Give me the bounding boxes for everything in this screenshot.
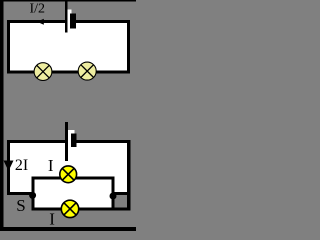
wire: circuit2 top left segment xyxy=(7,140,65,143)
wire: circuit1 top left segment xyxy=(7,20,65,23)
battery B1 thick plate xyxy=(70,14,76,29)
lamp L2 xyxy=(78,62,96,80)
wire: circuit2 bottom xyxy=(31,208,130,211)
wire: inner top branch xyxy=(31,177,114,180)
wire: left connector to node xyxy=(7,192,35,195)
svg-text:I: I xyxy=(49,210,55,229)
canvas background xyxy=(0,0,136,231)
svg-text:S: S xyxy=(16,196,25,215)
wire: inner left vertical xyxy=(31,177,34,211)
wire: circuit1 bottom xyxy=(7,70,130,73)
wire: circuit1 left xyxy=(7,20,10,73)
battery B1 thin plate xyxy=(65,2,68,33)
wire: inner right vertical xyxy=(111,177,114,211)
battery B2 thin plate / stub xyxy=(65,122,68,161)
frame border left xyxy=(0,0,4,231)
current arrow I/2 (pointing left) xyxy=(37,19,44,25)
battery B1 white gap patch xyxy=(68,9,72,20)
wire: right connector to node xyxy=(111,192,130,195)
lamp L4 (lower) xyxy=(61,200,78,217)
svg-text:I: I xyxy=(48,156,54,175)
lamp L1 xyxy=(34,63,52,81)
node dot left xyxy=(29,192,36,199)
wire: circuit2 outer right xyxy=(127,140,130,211)
circuit 2 interior xyxy=(7,140,131,208)
lamp L3 (upper) xyxy=(60,166,77,183)
wire: circuit2 top right segment xyxy=(77,140,131,143)
battery B2 white gap patch xyxy=(68,130,75,140)
battery B2 thick plate xyxy=(71,134,77,147)
gray pocket lower-left xyxy=(7,195,32,207)
wire: circuit2 outer left xyxy=(7,140,10,195)
frame border top xyxy=(0,0,136,2)
node dot right xyxy=(110,193,117,200)
gray pocket lower-right xyxy=(115,195,128,207)
frame border bottom xyxy=(0,227,136,231)
current arrow 2I (pointing down) xyxy=(4,161,14,172)
svg-text:2I: 2I xyxy=(15,157,28,174)
wire: circuit1 top right segment xyxy=(76,20,130,23)
wire: circuit1 right xyxy=(127,20,130,73)
svg-text:I/2: I/2 xyxy=(30,2,46,17)
circuit 1 interior xyxy=(7,20,130,73)
